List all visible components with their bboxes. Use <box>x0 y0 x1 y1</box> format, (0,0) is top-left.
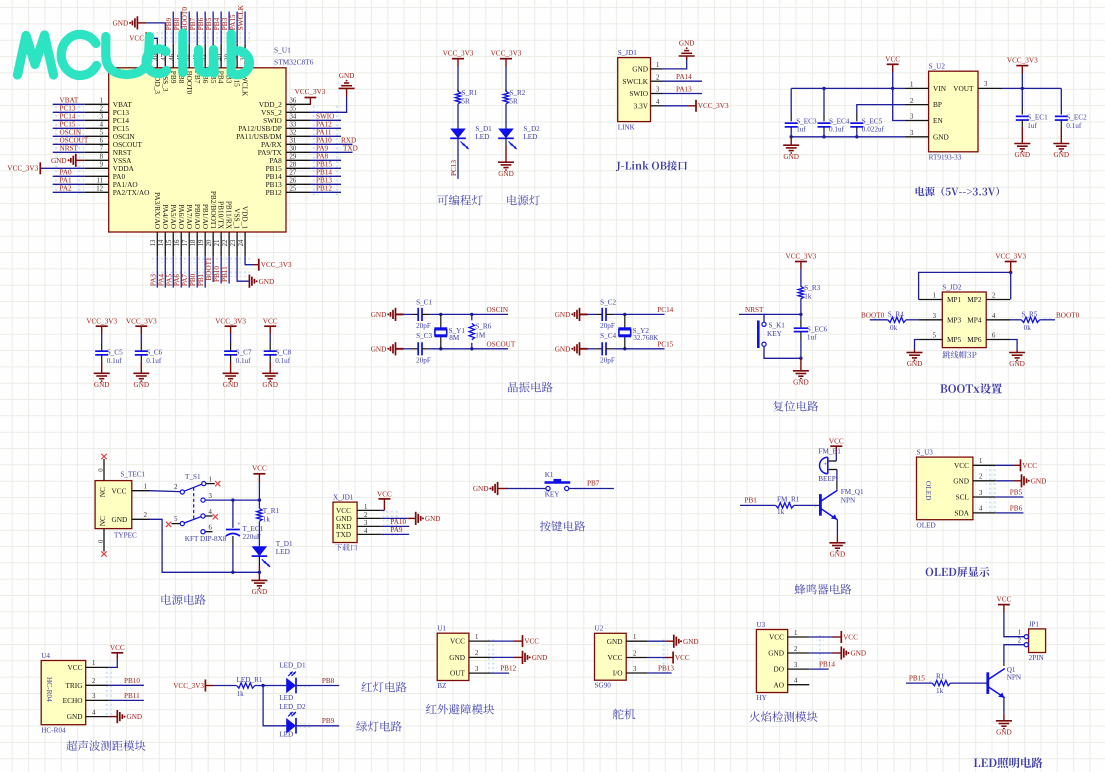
wire net PB14 <box>310 175 341 177</box>
svg-text:S_R6: S_R6 <box>475 322 491 330</box>
power VCC at U4 <box>116 653 118 660</box>
svg-text:VCC_3V3: VCC_3V3 <box>295 88 326 96</box>
svg-text:PB12: PB12 <box>266 188 283 197</box>
U1 pin 24 VDD_1 stub <box>244 232 246 256</box>
wire net PB8 <box>296 685 339 687</box>
svg-text:35: 35 <box>290 106 297 113</box>
power VCC at S_U3 <box>1014 464 1021 466</box>
svg-text:VSS_1: VSS_1 <box>233 208 242 229</box>
wire to JP1 pin1 <box>1004 612 1024 637</box>
U1 pin 36 VDD_2 stub <box>286 103 310 105</box>
svg-text:S_K1: S_K1 <box>769 322 786 330</box>
svg-text:1: 1 <box>933 293 936 300</box>
svg-text:20: 20 <box>206 239 213 246</box>
svg-text:1: 1 <box>656 62 659 69</box>
title red LED circuit <box>361 682 406 693</box>
ground below S_C5 <box>94 372 110 374</box>
svg-text:PA9: PA9 <box>390 526 403 534</box>
svg-text:S_R2: S_R2 <box>509 89 525 97</box>
wire VOUT rail <box>1002 87 1061 89</box>
svg-text:2: 2 <box>992 293 996 300</box>
svg-text:RT9193-33: RT9193-33 <box>929 154 962 162</box>
wire VIN rail <box>791 87 904 89</box>
svg-text:VCC: VCC <box>885 56 900 64</box>
svg-text:S_EC3: S_EC3 <box>796 117 817 125</box>
svg-text:5R: 5R <box>461 97 470 105</box>
svg-text:GND: GND <box>953 476 969 485</box>
svg-text:PA10: PA10 <box>316 137 332 145</box>
svg-text:1: 1 <box>92 660 95 667</box>
svg-text:29: 29 <box>290 154 297 161</box>
wire net PA5 <box>172 256 174 287</box>
svg-text:PC14: PC14 <box>60 113 76 121</box>
svg-text:PA13: PA13 <box>676 85 692 93</box>
svg-text:PA6/AO: PA6/AO <box>177 204 186 229</box>
svg-text:1: 1 <box>144 483 147 490</box>
capacitor S_EC5 <box>850 122 863 124</box>
svg-text:S_U1: S_U1 <box>274 46 291 55</box>
svg-text:PB10: PB10 <box>213 266 221 282</box>
svg-text:0k: 0k <box>1024 324 1032 332</box>
svg-text:PB1: PB1 <box>197 273 205 286</box>
svg-text:SDA: SDA <box>954 509 969 518</box>
svg-text:3: 3 <box>933 313 937 320</box>
svg-text:VCC: VCC <box>252 465 267 473</box>
wire <box>422 313 430 315</box>
wire net OSCIN <box>53 135 85 137</box>
svg-text:PB8: PB8 <box>173 17 181 30</box>
svg-text:T_R1: T_R1 <box>263 507 280 515</box>
wire net PA4 <box>164 256 166 287</box>
svg-text:GND: GND <box>371 311 387 319</box>
resistor LED_R1 <box>237 683 255 688</box>
U1 pin 44 BOOT0 stub <box>188 44 190 68</box>
svg-text:GND: GND <box>793 378 809 386</box>
ground at U1 pin 8 <box>76 159 85 161</box>
svg-text:23: 23 <box>230 239 237 246</box>
wire net PA10 <box>310 143 353 145</box>
svg-text:1: 1 <box>100 98 103 105</box>
U1 pin 25 PB12 stub <box>286 191 310 193</box>
svg-text:OLED: OLED <box>924 481 933 500</box>
svg-text:3: 3 <box>979 490 983 497</box>
title power-LED <box>507 195 540 206</box>
svg-text:SWCLK: SWCLK <box>237 4 245 30</box>
X_JD1 pin 4 TXD stub <box>357 533 381 535</box>
LED T_D1 <box>252 546 268 556</box>
svg-text:MP3: MP3 <box>947 315 962 324</box>
svg-text:BOOT1: BOOT1 <box>205 257 213 281</box>
U1 module pin 1 VCC stub <box>469 640 491 642</box>
S_TEC1 bottom pin no-connect <box>103 529 105 552</box>
svg-text:GND: GND <box>425 515 441 523</box>
svg-text:VCC_3V3: VCC_3V3 <box>491 50 522 58</box>
S_U2 pin 2 BP stub <box>905 104 929 106</box>
svg-text:0.1uf: 0.1uf <box>829 126 845 134</box>
U1 pin 12 PA2/TX/AO stub <box>85 191 109 193</box>
svg-text:VCC_3V3: VCC_3V3 <box>261 261 292 269</box>
switch dashed link <box>193 488 195 521</box>
svg-text:VCC: VCC <box>112 486 127 495</box>
wire U2 pin1 to ground <box>648 640 666 642</box>
wire <box>258 556 260 565</box>
svg-text:2: 2 <box>475 650 479 657</box>
capacitor S_C4 <box>601 342 603 355</box>
wire net PB12 <box>491 672 510 674</box>
svg-text:KEY: KEY <box>767 330 783 338</box>
svg-text:1: 1 <box>1018 630 1021 637</box>
svg-text:MP1: MP1 <box>947 295 962 304</box>
svg-text:VCC: VCC <box>129 35 144 43</box>
svg-text:GND: GND <box>768 649 784 658</box>
wire net PB7 <box>196 12 198 44</box>
wire <box>823 127 825 132</box>
switch pin4 stub no-connect <box>205 515 212 517</box>
display S_U3 body <box>917 457 973 520</box>
svg-text:27: 27 <box>290 170 297 177</box>
wire net PA8 <box>310 159 341 161</box>
resistor S_R2 <box>503 91 508 103</box>
svg-text:VCC_3V3: VCC_3V3 <box>1007 56 1038 64</box>
wire buzzer to collector <box>836 470 838 481</box>
svg-text:2: 2 <box>794 646 798 653</box>
svg-text:VIN: VIN <box>933 84 947 93</box>
svg-text:VBAT: VBAT <box>60 97 79 105</box>
wire <box>800 298 802 314</box>
svg-text:PC15: PC15 <box>657 341 673 349</box>
svg-text:PA0: PA0 <box>60 169 73 177</box>
wire <box>255 685 286 687</box>
capacitor S_EC2 <box>1055 115 1068 117</box>
S_TEC1 pin 1 stub <box>132 490 150 492</box>
U1 pin 48 VDD_3 stub <box>156 44 158 68</box>
svg-text:VCC: VCC <box>997 595 1012 603</box>
svg-text:GND: GND <box>1031 477 1047 485</box>
svg-text:GND: GND <box>607 637 623 646</box>
svg-text:3: 3 <box>209 493 213 500</box>
wire <box>269 334 271 343</box>
svg-text:S_C2: S_C2 <box>600 299 616 307</box>
svg-text:5: 5 <box>933 333 937 340</box>
svg-text:FM_B1: FM_B1 <box>819 447 842 455</box>
svg-text:BOOT0: BOOT0 <box>181 7 189 31</box>
wire S_U3 pin2 to ground <box>995 480 1013 482</box>
svg-text:PA14: PA14 <box>676 73 692 81</box>
wire <box>258 521 260 546</box>
wire net PB11 <box>228 256 230 283</box>
svg-text:MP4: MP4 <box>967 315 982 324</box>
U3 pin 4 AO stub <box>788 684 810 686</box>
svg-text:4: 4 <box>992 313 996 320</box>
resistor R1 <box>932 680 950 685</box>
svg-text:3: 3 <box>364 520 368 527</box>
ground at S_JD1 pin1 <box>686 56 688 60</box>
module U4 body <box>41 661 85 725</box>
module U3 body <box>756 630 787 693</box>
X_JD1 pin 3 RXD stub <box>357 525 381 527</box>
wire U1 pin 24 to power <box>245 256 254 264</box>
svg-text:2: 2 <box>1018 638 1022 645</box>
svg-text:GND: GND <box>498 170 514 178</box>
wire to green LED <box>263 686 286 726</box>
svg-text:21: 21 <box>214 240 221 247</box>
wire JP1 pin2 to collector <box>1004 645 1024 663</box>
svg-text:SCL: SCL <box>956 493 970 502</box>
svg-text:T_S1: T_S1 <box>185 473 201 481</box>
svg-text:GND: GND <box>783 153 799 161</box>
svg-text:S_C7: S_C7 <box>236 349 252 357</box>
svg-text:S_EC4: S_EC4 <box>829 117 850 125</box>
svg-text:GND: GND <box>1054 151 1070 159</box>
wire <box>505 66 507 92</box>
svg-text:PA9: PA9 <box>316 145 329 153</box>
svg-text:PB6: PB6 <box>1010 505 1023 513</box>
svg-text:3.3V: 3.3V <box>634 101 649 110</box>
svg-text:S_R1: S_R1 <box>461 89 477 97</box>
svg-text:EN: EN <box>933 116 943 125</box>
svg-text:FM_R1: FM_R1 <box>777 496 800 504</box>
U4 pin 4 GND stub <box>86 716 109 718</box>
svg-text:S_C1: S_C1 <box>416 299 432 307</box>
wire net PA6 <box>180 256 182 287</box>
svg-text:PA3/RX/AO: PA3/RX/AO <box>153 192 162 229</box>
wire net SWIO <box>310 119 341 121</box>
svg-text:OUT: OUT <box>450 669 466 678</box>
svg-text:VDD_1: VDD_1 <box>241 206 250 229</box>
svg-text:HC-R04: HC-R04 <box>45 677 54 702</box>
svg-text:SWIO: SWIO <box>629 89 648 98</box>
svg-text:GND: GND <box>127 713 143 721</box>
wire S_JD1 pin1 to ground <box>663 60 687 69</box>
svg-text:X_JD1: X_JD1 <box>333 494 354 502</box>
wire U4 pin1 to power <box>109 660 118 668</box>
wire U1 pin 23 to ground <box>237 256 249 281</box>
svg-text:GND: GND <box>555 345 571 353</box>
svg-text:PB10: PB10 <box>124 677 140 685</box>
title LED lighting circuit <box>974 757 1043 768</box>
buzzer FM_B1 <box>820 457 828 474</box>
wire net PB9 <box>172 12 174 44</box>
svg-text:6: 6 <box>100 138 104 145</box>
svg-text:GND: GND <box>555 311 571 319</box>
svg-text:MP2: MP2 <box>967 295 982 304</box>
svg-text:15: 15 <box>166 239 173 246</box>
S_JD1 pin 2 SWCLK stub <box>651 80 663 82</box>
svg-text:0.1uf: 0.1uf <box>107 357 123 365</box>
MCUclub logo <box>18 33 250 75</box>
svg-text:33: 33 <box>290 122 297 129</box>
svg-text:1M: 1M <box>475 331 486 339</box>
S_JD1 pin 1 GND stub <box>651 68 663 70</box>
wire net PB0 <box>196 256 198 287</box>
wire net PB7 <box>569 488 614 490</box>
svg-text:MP6: MP6 <box>967 335 982 344</box>
wire pin1 to switch <box>150 490 181 493</box>
wire <box>1060 88 1062 107</box>
U1 pin 30 PA9/TX stub <box>286 151 310 153</box>
U1 pin 39 PB3 stub <box>228 44 230 68</box>
resistor T_R1 <box>257 508 262 521</box>
wire switch pin3 to VCC rail <box>205 499 259 501</box>
U1 pin 8 VSSA stub <box>85 159 109 161</box>
wire emitter to ground <box>836 520 838 536</box>
U4 pin 1 VCC stub <box>86 666 109 668</box>
wire <box>258 482 260 508</box>
svg-text:TXD: TXD <box>336 530 351 539</box>
svg-text:K1: K1 <box>545 471 554 479</box>
svg-text:PB11/RX: PB11/RX <box>225 201 234 230</box>
S_U3 pin 1 VCC stub <box>973 464 995 466</box>
svg-text:4: 4 <box>979 506 983 513</box>
title reset circuit <box>773 401 818 412</box>
ground at U1 pin 47 <box>137 22 146 24</box>
U1 pin 23 VSS_1 stub <box>236 232 238 256</box>
svg-text:GND: GND <box>223 381 239 389</box>
wire net PB4 <box>220 12 222 44</box>
ground below S_C8 <box>262 372 278 374</box>
svg-text:PA7: PA7 <box>181 274 189 287</box>
svg-text:5R: 5R <box>509 97 518 105</box>
ground below S_C6 <box>133 372 149 374</box>
svg-text:1k: 1k <box>263 516 271 524</box>
svg-text:2: 2 <box>979 474 983 481</box>
U1 pin 7 NRST stub <box>85 151 109 153</box>
wire U3 pin2 to ground <box>809 652 832 654</box>
U1 pin 45 PB8 stub <box>180 44 182 68</box>
svg-text:PB3: PB3 <box>221 17 229 30</box>
svg-text:PB7: PB7 <box>587 480 600 488</box>
wire <box>269 355 271 362</box>
wire base <box>794 504 819 506</box>
wire <box>140 355 142 362</box>
wire net PB15 <box>906 682 932 684</box>
ground left of S_C3 <box>395 342 397 355</box>
S_U3 pin 2 GND stub <box>973 480 995 482</box>
module U2 body <box>595 633 627 680</box>
resistor S_R1 <box>455 91 460 103</box>
U1 pin 29 PA8 stub <box>286 159 310 161</box>
wire <box>856 114 858 122</box>
svg-text:SWCLK: SWCLK <box>622 77 648 86</box>
ground at U1 pin 35 <box>346 88 348 96</box>
key S_K1 <box>763 314 765 321</box>
svg-text:VCC: VCC <box>524 638 539 646</box>
wire <box>856 127 858 132</box>
ground at U4 pin4 <box>109 716 118 718</box>
ground below reset <box>800 358 802 371</box>
ground at U2 pin1 <box>666 640 674 642</box>
svg-text:GND: GND <box>449 653 465 662</box>
ground below S_EC2 <box>1053 143 1069 145</box>
svg-text:GND: GND <box>996 728 1012 736</box>
svg-text:20pF: 20pF <box>600 322 615 330</box>
power VCC at U1 pin 48 <box>146 38 157 44</box>
svg-text:20pF: 20pF <box>416 356 431 364</box>
U1 pin 16 PA6/AO stub <box>180 232 182 256</box>
svg-text:OSCOUT: OSCOUT <box>487 341 516 349</box>
svg-text:32: 32 <box>290 130 297 137</box>
svg-text:1uf: 1uf <box>796 126 806 134</box>
svg-text:S_D1: S_D1 <box>475 125 492 133</box>
wire <box>764 347 801 359</box>
svg-text:OSCOUT: OSCOUT <box>60 137 89 145</box>
svg-text:LED: LED <box>279 731 293 739</box>
wire net NRST <box>53 151 85 153</box>
ground at U1 pin 23 <box>248 275 250 288</box>
wire S_JD1 pin4 to power <box>663 105 689 107</box>
connector S_JD1 body <box>618 58 651 122</box>
wire <box>1021 88 1023 107</box>
svg-text:S_C4: S_C4 <box>600 332 616 340</box>
wire <box>1010 319 1021 321</box>
wire <box>457 104 459 129</box>
svg-text:PB8: PB8 <box>322 677 335 685</box>
svg-text:0.1uf: 0.1uf <box>275 357 291 365</box>
svg-text:1: 1 <box>979 458 982 465</box>
svg-text:S_JD2: S_JD2 <box>942 283 962 291</box>
svg-text:PC15: PC15 <box>60 121 76 129</box>
svg-text:S_C3: S_C3 <box>416 332 432 340</box>
svg-text:PA3: PA3 <box>149 274 157 287</box>
ground below MP5 <box>914 350 916 353</box>
svg-text:VCC: VCC <box>110 644 125 652</box>
svg-text:Q1: Q1 <box>1007 666 1016 674</box>
svg-text:GND: GND <box>632 65 648 74</box>
svg-text:1: 1 <box>475 634 478 641</box>
svg-text:GND: GND <box>371 345 387 353</box>
svg-text:GND: GND <box>683 638 699 646</box>
ground below S_EC1 <box>1014 143 1030 145</box>
svg-text:13: 13 <box>150 239 157 246</box>
svg-text:S_C8: S_C8 <box>275 349 291 357</box>
svg-text:S_EC2: S_EC2 <box>1066 114 1087 122</box>
svg-text:S_EC1: S_EC1 <box>1027 114 1048 122</box>
U2 pin 2 VCC stub <box>626 657 648 659</box>
U1 pin 40 PB4 stub <box>220 44 222 68</box>
wire <box>404 348 412 350</box>
power VCC at X_JD1 <box>383 499 385 511</box>
svg-text:GND: GND <box>679 39 695 47</box>
resistor S_R4 <box>888 317 906 322</box>
U1 pin 6 OSCOUT stub <box>85 143 109 145</box>
ground below S_EC3 <box>790 137 792 145</box>
svg-text:KEY: KEY <box>545 491 561 499</box>
X_JD1 pin 2 GND stub <box>357 517 381 519</box>
JP1 pin circles <box>1024 635 1028 639</box>
wire net PB12 <box>310 191 341 193</box>
U1 pin 19 PB1/AO stub <box>204 232 206 256</box>
svg-text:PB9: PB9 <box>165 17 173 30</box>
capacitor S_C3 <box>417 342 419 355</box>
svg-text:0.1uf: 0.1uf <box>236 357 252 365</box>
svg-text:22: 22 <box>222 239 229 246</box>
switch pin1 stub no-connect <box>206 483 215 485</box>
svg-text:34: 34 <box>290 114 297 121</box>
svg-text:46: 46 <box>169 53 176 60</box>
ground at U3 pin2 <box>833 652 842 654</box>
svg-text:GND: GND <box>339 72 355 80</box>
wire net PC14 <box>53 119 85 121</box>
wire net PA3 <box>156 256 158 287</box>
svg-text:KFT DIP-8X8: KFT DIP-8X8 <box>185 535 227 543</box>
ground at X_JD1 pin2 <box>408 517 416 519</box>
module U1 body <box>437 633 469 680</box>
svg-text:VCC_3V3: VCC_3V3 <box>698 102 729 110</box>
U3 pin 1 VCC stub <box>788 636 810 638</box>
buzzer pins <box>829 460 837 462</box>
svg-text:6: 6 <box>992 333 996 340</box>
ground at key circuit <box>497 482 499 495</box>
